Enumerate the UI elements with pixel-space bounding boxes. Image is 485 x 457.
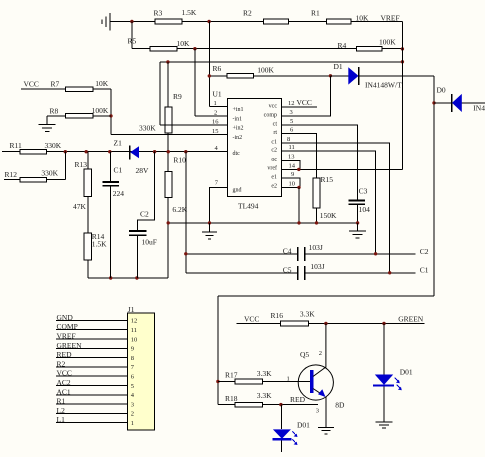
wire: pin3 comp up to R6/D1 node <box>282 76 331 116</box>
wire: R9/R10 vertical branch <box>167 62 169 278</box>
wire: J1 pin 12 GND <box>56 313 137 325</box>
node: junction C2 tap <box>153 150 156 153</box>
wire: green LED drop <box>383 324 385 375</box>
resistor R11 <box>10 141 62 154</box>
svg-text:-in1: -in1 <box>233 116 243 122</box>
svg-text:3.3K: 3.3K <box>257 369 272 378</box>
svg-text:10K: 10K <box>356 13 370 22</box>
svg-text:5: 5 <box>290 118 293 125</box>
node: junction row C2 left <box>184 252 187 255</box>
svg-text:R1: R1 <box>57 397 66 406</box>
svg-text:224: 224 <box>113 189 125 198</box>
node: junction R9/R10 tap <box>167 150 170 153</box>
wire: red LED cathode down <box>281 440 283 452</box>
svg-text:R16: R16 <box>271 311 284 320</box>
svg-text:11: 11 <box>131 327 137 334</box>
op-amp/PWM IC U1 TL494 <box>213 90 282 211</box>
node: junction pin9/10 <box>297 186 300 189</box>
node: junction R3 right <box>207 20 210 23</box>
wire: R6 feedback line <box>209 75 330 77</box>
svg-text:gnd: gnd <box>233 187 242 193</box>
svg-text:D1: D1 <box>334 62 343 71</box>
wire: R17 base line <box>218 381 310 383</box>
wire: left drop to R17/R18 <box>217 296 219 405</box>
node: junction at ground tee <box>130 20 133 23</box>
svg-text:U1: U1 <box>213 90 222 99</box>
svg-text:D0: D0 <box>437 85 446 94</box>
wire: J1 pin 3 R1 <box>56 397 134 409</box>
ground (top-left, rotated earth symbol) <box>102 13 132 30</box>
wire: drop to pin16 <box>159 62 161 125</box>
node: junction R6 left <box>208 74 211 77</box>
svg-text:VCC: VCC <box>57 369 72 378</box>
svg-text:R3: R3 <box>154 8 163 17</box>
svg-text:16: 16 <box>212 119 219 126</box>
resistor R17 3.3K <box>225 369 272 384</box>
svg-text:6: 6 <box>290 127 294 134</box>
svg-text:C2: C2 <box>420 247 429 256</box>
svg-text:1: 1 <box>214 100 217 107</box>
svg-text:R7: R7 <box>51 80 60 89</box>
svg-text:C2: C2 <box>140 210 149 219</box>
svg-text:VREF: VREF <box>57 332 76 341</box>
node: junction pin7 ground <box>208 221 211 224</box>
svg-text:R2: R2 <box>57 359 66 368</box>
resistor R3 <box>154 8 197 24</box>
svg-text:1: 1 <box>287 375 290 382</box>
svg-text:oc: oc <box>271 157 277 163</box>
ground (below R8) <box>39 116 56 132</box>
svg-text:L2: L2 <box>57 406 66 415</box>
svg-text:GND: GND <box>57 313 74 322</box>
ground (green LED) <box>376 422 393 428</box>
wire: pin11 c2 to row C2 <box>282 151 376 254</box>
node: junction R7/R8 divider <box>109 114 112 117</box>
svg-text:10K: 10K <box>177 39 191 48</box>
svg-text:1: 1 <box>131 420 134 427</box>
svg-text:ct: ct <box>273 121 278 127</box>
svg-text:R11: R11 <box>10 141 22 150</box>
svg-text:11: 11 <box>289 144 295 151</box>
resistor R1 <box>311 8 369 23</box>
svg-text:7: 7 <box>215 179 219 186</box>
svg-text:C4: C4 <box>283 246 292 255</box>
wire: D0 line <box>434 102 485 104</box>
svg-text:c2: c2 <box>271 147 277 153</box>
svg-text:COMP: COMP <box>57 322 78 331</box>
diode D1 IN4148W/T <box>334 62 403 89</box>
node: junction R12 tap <box>64 150 67 153</box>
wire: J1 pin 8 RED <box>56 350 134 362</box>
resistor R12 <box>4 152 65 182</box>
wire: top net from ground to VREF corner <box>132 21 403 23</box>
wire: pin6 rt to R15 <box>282 134 317 178</box>
svg-text:3: 3 <box>290 109 293 116</box>
wire: pin12 VCC stub <box>282 106 317 108</box>
wire: row C2 (C4) right segment <box>305 253 416 255</box>
svg-text:3: 3 <box>316 408 319 415</box>
svg-text:12: 12 <box>288 100 295 107</box>
svg-text:R10: R10 <box>173 156 186 165</box>
wire: VCC-GREEN line <box>237 323 425 325</box>
svg-text:1.5K: 1.5K <box>182 8 197 17</box>
svg-text:104: 104 <box>359 205 371 214</box>
svg-text:1.5K: 1.5K <box>92 239 107 248</box>
node: junction R15 bottom <box>315 221 318 224</box>
svg-text:28V: 28V <box>136 166 150 175</box>
resistor R18 3.3K <box>225 391 272 407</box>
svg-text:2: 2 <box>214 109 217 116</box>
LED D01 (green indicator) <box>373 368 413 391</box>
wire: drop R3-junction to R6/pin1 <box>208 22 210 107</box>
wire: J1 pin 1 L1 <box>56 415 134 427</box>
resistor R15 150K <box>313 175 337 223</box>
svg-text:10: 10 <box>289 181 296 188</box>
resistor R2 <box>243 8 289 23</box>
wire: J1 pin 6 VCC <box>56 369 135 381</box>
svg-text:100K: 100K <box>257 66 274 75</box>
svg-text:8D: 8D <box>335 400 345 409</box>
svg-text:330K: 330K <box>41 168 58 177</box>
svg-text:RED: RED <box>57 350 73 359</box>
wire: pin5 ct to C3 <box>282 125 358 200</box>
capacitor C4 103J <box>283 243 323 261</box>
node: junction C1 bottom <box>109 276 112 279</box>
svg-text:R2: R2 <box>243 8 252 17</box>
wire: row C1 (C5) right segment <box>305 272 416 274</box>
svg-text:330K: 330K <box>45 141 62 150</box>
svg-text:100K: 100K <box>379 38 396 47</box>
ground (main, below U1) <box>202 223 217 239</box>
resistor R4 <box>338 38 397 51</box>
wire: e1/e2 down to ground row <box>298 187 300 223</box>
svg-text:R4: R4 <box>338 41 347 50</box>
resistor R14 1.5K <box>84 232 107 278</box>
LED D01 (red indicator) <box>273 421 311 445</box>
svg-text:comp: comp <box>264 113 277 119</box>
svg-text:R13: R13 <box>75 160 88 169</box>
resistor R13 47K <box>73 152 91 233</box>
svg-text:47K: 47K <box>73 202 87 211</box>
node: junction R5 right (to pin2) <box>193 47 196 50</box>
wire: J1 pin 9 GREEN <box>56 341 134 353</box>
node: junction R4 right on VREF rail <box>401 47 404 50</box>
svg-text:e2: e2 <box>271 184 277 190</box>
svg-text:R12: R12 <box>5 170 18 179</box>
svg-text:8: 8 <box>287 136 290 143</box>
svg-text:+in2: +in2 <box>233 126 244 132</box>
wire: red LED drop <box>281 405 283 430</box>
node: junction R6 right / D1 anode <box>329 74 332 77</box>
wire: bottom row R (R14/C1/C2 common) <box>88 277 168 279</box>
wire: R8 line <box>47 115 111 117</box>
wire: VREF branch line y62 <box>160 61 403 63</box>
svg-text:2: 2 <box>319 350 322 357</box>
capacitor C1 224 <box>103 152 125 278</box>
svg-text:+in1: +in1 <box>233 107 244 113</box>
node: junction pin13/14 <box>297 168 300 171</box>
wire: R5/R4 line <box>132 48 403 50</box>
svg-text:9: 9 <box>131 346 134 353</box>
svg-text:vref: vref <box>267 165 277 172</box>
svg-text:AC2: AC2 <box>57 378 71 387</box>
wire: J1 pin 11 COMP <box>56 322 137 334</box>
svg-text:2: 2 <box>131 411 134 418</box>
svg-text:L1: L1 <box>57 415 66 424</box>
resistor R10 <box>165 156 188 214</box>
U1 right pin names <box>264 104 278 190</box>
node: junction C4/C5 tap <box>184 150 187 153</box>
resistor R9 <box>139 92 182 133</box>
node: junction R9 top <box>166 60 169 63</box>
wire: pin8 c1 to row C1 <box>282 143 390 273</box>
svg-text:-in2: -in2 <box>233 135 243 141</box>
svg-text:dtc: dtc <box>233 151 241 157</box>
svg-text:R15: R15 <box>321 175 334 184</box>
svg-text:RED: RED <box>290 395 306 404</box>
node: junction C1 tap <box>108 150 111 153</box>
svg-text:R18: R18 <box>225 394 238 403</box>
node: junction C3 bottom <box>356 221 359 224</box>
wire: green LED to ground <box>383 387 385 422</box>
zener diode Z1 28V <box>114 138 150 175</box>
svg-text:c1: c1 <box>271 139 277 145</box>
svg-text:e1: e1 <box>271 174 277 180</box>
wire: drop from top line to R5 line <box>131 22 133 49</box>
wire: R7 right drop to divider <box>110 89 112 134</box>
wire: divider to pin15 <box>111 133 227 135</box>
svg-text:C3: C3 <box>359 186 368 195</box>
node: junction pin11 on row C2 <box>374 252 377 255</box>
ground (below C3) <box>349 223 366 238</box>
svg-text:Q5: Q5 <box>300 350 309 359</box>
wire: VCC to R7 <box>21 88 111 90</box>
wire: output net from right rail to transistor bias <box>218 295 434 297</box>
svg-text:R5: R5 <box>128 36 137 45</box>
svg-text:J1: J1 <box>128 305 135 314</box>
svg-text:vcc: vcc <box>269 104 278 110</box>
node: junction D01 red tap <box>279 403 282 406</box>
wire: VREF rail vertical <box>401 22 403 170</box>
wire: drop R5-junction to pin2 <box>194 49 196 116</box>
svg-text:D01: D01 <box>400 368 413 377</box>
capacitor C3 104 <box>349 186 370 223</box>
node: junction C2 bottom <box>135 276 138 279</box>
wire: feedback line into pin4 <box>2 151 227 153</box>
wire: R18 RED line <box>218 404 318 406</box>
svg-text:4: 4 <box>215 145 219 152</box>
svg-text:R6: R6 <box>213 64 222 73</box>
svg-text:R1: R1 <box>311 8 320 17</box>
svg-text:Z1: Z1 <box>114 138 123 147</box>
node: junction y62 on VREF rail <box>401 60 404 63</box>
wire: ground row <box>168 222 357 224</box>
svg-text:TL494: TL494 <box>238 202 259 211</box>
svg-text:15: 15 <box>212 128 219 135</box>
wire: pin9 e1 stub down to pin10 <box>282 178 300 188</box>
svg-text:GREEN: GREEN <box>57 341 83 350</box>
wire: pin13 oc stub down to pin14 <box>282 160 300 169</box>
svg-text:3.3K: 3.3K <box>300 310 315 319</box>
resistor R6 <box>213 64 275 78</box>
svg-text:103J: 103J <box>310 262 324 271</box>
svg-text:R8: R8 <box>50 107 59 116</box>
svg-text:R17: R17 <box>225 371 238 380</box>
svg-text:9: 9 <box>291 171 294 178</box>
node: junction R13 tap <box>85 150 88 153</box>
node: junction green LED tap <box>382 322 385 325</box>
node: junction R10 bottom <box>167 221 170 224</box>
wire: pin16 line over R9 <box>160 124 228 126</box>
transistor Q5 <box>298 324 345 415</box>
svg-text:GREEN: GREEN <box>398 314 424 323</box>
svg-text:VCC: VCC <box>244 314 259 323</box>
svg-text:12: 12 <box>131 318 138 325</box>
node: junction e1/e2 ground <box>297 221 300 224</box>
svg-text:D01: D01 <box>297 421 310 430</box>
wire: right rail down from D1 <box>433 76 435 296</box>
resistor R5 <box>128 36 191 51</box>
svg-text:VCC: VCC <box>297 98 312 107</box>
wire: pin2 stub <box>195 115 227 117</box>
wire: D1 line to right rail <box>330 75 434 77</box>
wire: pin10 e2 stub <box>282 186 300 188</box>
svg-text:IN4: IN4 <box>473 103 485 112</box>
svg-text:13: 13 <box>288 154 295 161</box>
ground (Q5 emitter) <box>318 428 334 434</box>
node: junction R17 left <box>216 380 219 383</box>
wire: J1 pin 10 VREF <box>56 332 137 344</box>
wire: pin7 gnd down <box>210 187 228 223</box>
svg-text:100K: 100K <box>92 106 109 115</box>
wire: J1 pin 4 AC1 <box>56 387 135 399</box>
node: junction Q5 collector tap <box>324 322 327 325</box>
node: junction D0 tap <box>432 101 435 104</box>
svg-text:10: 10 <box>131 336 138 343</box>
svg-text:C1: C1 <box>420 265 429 274</box>
svg-text:10uF: 10uF <box>142 238 157 247</box>
svg-text:C5: C5 <box>283 265 292 274</box>
resistor R7 <box>51 79 109 92</box>
capacitor C5 103J <box>283 262 325 280</box>
wire: Q5 emitter down <box>325 397 327 428</box>
wire: row C1 (C5) left segment <box>186 272 298 274</box>
svg-text:3: 3 <box>131 401 134 408</box>
wire: J1 pin 2 L2 <box>56 406 134 418</box>
connector J1 <box>128 305 155 430</box>
wire: J1 pin 5 AC2 <box>56 378 134 390</box>
capacitor C2 10uF <box>129 152 157 278</box>
svg-text:330K: 330K <box>139 124 156 133</box>
wire: J1 pin 7 R2 <box>56 359 135 371</box>
wire: pin14 vref to VREF rail <box>282 168 403 170</box>
svg-text:14: 14 <box>289 163 296 170</box>
resistor R8 <box>50 106 109 118</box>
svg-text:3.3K: 3.3K <box>257 391 272 400</box>
wire: C4/C5 vertical from feedback node <box>185 152 187 273</box>
svg-text:10K: 10K <box>95 79 109 88</box>
U1 input pin names <box>233 107 244 193</box>
node: junction pin8 on row C1 <box>388 271 391 274</box>
svg-text:C1: C1 <box>114 166 123 175</box>
svg-text:VREF: VREF <box>381 13 400 22</box>
svg-text:103J: 103J <box>309 243 323 252</box>
svg-text:R9: R9 <box>173 92 182 101</box>
svg-text:150K: 150K <box>320 211 337 220</box>
wire: row C2 (C4) left segment <box>186 253 298 255</box>
svg-text:AC1: AC1 <box>57 387 71 396</box>
svg-text:8: 8 <box>131 355 134 362</box>
resistor R16 3.3K <box>271 310 316 326</box>
svg-text:rt: rt <box>273 130 277 136</box>
svg-text:VCC: VCC <box>24 80 39 89</box>
wire: pin1 stub <box>209 105 227 107</box>
svg-text:IN4148W/T: IN4148W/T <box>365 81 402 90</box>
diode D0 IN4... <box>437 85 485 112</box>
svg-text:5: 5 <box>131 383 134 390</box>
